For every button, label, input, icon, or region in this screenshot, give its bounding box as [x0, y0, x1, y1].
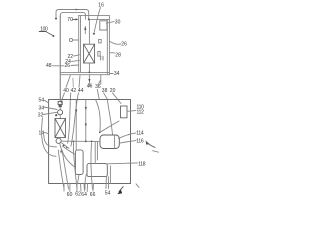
- bottom label 54b: [105, 191, 111, 197]
- compressor circle: [56, 138, 61, 143]
- svg-text:48: 48: [46, 63, 52, 69]
- right squiggle pointer: [148, 143, 156, 147]
- leader 24: [72, 60, 80, 61]
- leader 36 up: [99, 81, 101, 85]
- label 44: [78, 88, 84, 94]
- left label 32: [38, 112, 44, 118]
- leader arrow from 100 to pipe: [47, 32, 53, 35]
- wire manifold to tank: [73, 141, 75, 150]
- right label 110: [137, 105, 145, 111]
- wire: outer duct right vertical: [86, 10, 89, 20]
- leader 38 down: [104, 93, 108, 99]
- right label 118: [138, 161, 146, 167]
- leader to label 28: [110, 52, 115, 54]
- label 46: [87, 83, 93, 89]
- wire: inner duct right vertical: [83, 12, 86, 19]
- leader 44 into box: [71, 93, 79, 146]
- small down arrow near compressor: [60, 151, 62, 154]
- wire right of control box: [109, 166, 111, 184]
- housing right wall inner: [106, 19, 108, 74]
- junction dot terminating stub: [55, 18, 57, 20]
- svg-text:36: 36: [95, 84, 101, 90]
- wire capsule to control box: [94, 141, 96, 163]
- svg-text:46: 46: [87, 83, 93, 89]
- leader curve bottom to compressor left: [58, 150, 64, 189]
- left label 34b: [39, 105, 45, 111]
- svg-text:70: 70: [67, 17, 73, 23]
- svg-text:118: 118: [138, 161, 146, 167]
- label 26a: [65, 63, 71, 69]
- wire valve to evaporator: [59, 115, 61, 119]
- svg-text:112: 112: [137, 109, 145, 115]
- svg-text:38: 38: [102, 88, 108, 94]
- svg-text:34: 34: [39, 105, 45, 111]
- svg-text:34: 34: [114, 71, 120, 77]
- junction cluster blobs: [63, 144, 65, 146]
- svg-text:16: 16: [98, 3, 104, 9]
- long leader curve into box lower-left a: [44, 135, 57, 147]
- small rect component right: [121, 106, 128, 118]
- shelf line y=19.4: [89, 18, 110, 20]
- wire: right below floor: [100, 75, 102, 85]
- leader curve bottom to compressor: [62, 150, 69, 189]
- svg-text:64: 64: [81, 192, 87, 198]
- heat exchanger X-box top: [84, 44, 95, 63]
- bottom label 66: [90, 192, 96, 198]
- right label 114: [136, 130, 144, 136]
- junction dot on floor: [89, 72, 91, 74]
- wire compressor to tank curve b: [60, 144, 76, 168]
- label 20: [110, 88, 116, 94]
- housing right wall outer: [108, 16, 110, 75]
- wire from top edge down right-middle: [96, 100, 101, 132]
- leader to label 30: [106, 22, 114, 24]
- right label 116: [136, 138, 144, 144]
- leader 44 up: [79, 76, 80, 88]
- leader to right label 118: [107, 162, 137, 165]
- flow arrowhead on top duct line: [76, 9, 80, 11]
- label 26: [121, 42, 127, 48]
- leader 40 into box: [61, 93, 64, 103]
- leader from 16: [94, 8, 100, 33]
- leader 38 continues into box: [107, 99, 112, 135]
- label 16: [98, 3, 104, 9]
- label 22: [68, 54, 74, 60]
- left label 54: [39, 98, 45, 104]
- leader 22: [74, 55, 80, 56]
- svg-text:114: 114: [136, 130, 144, 136]
- label 42: [71, 88, 77, 94]
- wire vertical inside box a: [75, 100, 77, 150]
- big box: [49, 100, 131, 184]
- svg-text:26: 26: [121, 42, 127, 48]
- floor line upper: [60, 71, 109, 73]
- left label 14: [39, 130, 45, 136]
- corner tick bottom right: [136, 184, 139, 188]
- wire: outer duct top horizontal: [59, 9, 86, 11]
- label 36: [95, 84, 101, 90]
- leader 36 down: [97, 89, 99, 99]
- wire vertical inside box b: [85, 100, 87, 142]
- housing left wall outer: [78, 16, 80, 73]
- wire evaporator to compressor: [58, 137, 61, 140]
- label 28: [115, 53, 121, 59]
- small bracket component a: [99, 40, 102, 43]
- dark dot left of valve: [55, 114, 57, 116]
- junction dot and diagonal right-middle: [99, 131, 101, 133]
- wire tank to bottom edge: [78, 175, 80, 184]
- leader curve bottom to manifold: [91, 143, 93, 189]
- small bracket component b: [98, 52, 100, 57]
- leader to right label 114: [119, 141, 136, 144]
- svg-text:42: 42: [71, 88, 77, 94]
- long leader curve into box lower-left b: [42, 118, 56, 157]
- leader 26a: [71, 64, 79, 67]
- bottom small arrow mark: [119, 187, 123, 192]
- wire: center below floor with arrow: [88, 75, 90, 87]
- blower capsule: [100, 135, 119, 149]
- right label 112: [137, 109, 145, 115]
- leader 40 up: [66, 76, 70, 88]
- label 38: [102, 88, 108, 94]
- bottom label 60: [67, 192, 73, 198]
- housing top edge: [79, 15, 110, 17]
- leader 46 up: [72, 78, 74, 87]
- leader curve bottom left of tank: [73, 150, 77, 190]
- expansion valve rect: [58, 102, 62, 105]
- floor line lower: [60, 74, 109, 76]
- housing left wall inner: [80, 16, 82, 73]
- leader to right label 112: [118, 133, 136, 139]
- up flow arrow inside housing: [84, 26, 86, 30]
- svg-text:28: 28: [115, 53, 121, 59]
- wire from sensor: [73, 39, 79, 41]
- svg-text:26: 26: [65, 63, 71, 69]
- svg-text:30: 30: [115, 20, 121, 26]
- wire compressor to tank curve a: [63, 146, 76, 155]
- label 100 with underline: [40, 27, 48, 33]
- leader: [44, 107, 57, 110]
- wire: left pipe vertical: [59, 16, 61, 100]
- svg-text:62: 62: [75, 192, 81, 198]
- leader: [43, 112, 57, 114]
- label 70 flow arrow: [67, 17, 73, 23]
- leader 42 into box: [68, 93, 71, 143]
- wire: center line above X-box: [88, 19, 90, 44]
- wire box top to valve: [59, 100, 61, 102]
- bottom label 64: [81, 192, 87, 198]
- capsule inner line: [114, 135, 116, 148]
- label 40: [63, 88, 69, 94]
- leader 48 crossing pipe: [52, 65, 64, 67]
- leader 20 down: [112, 93, 121, 104]
- svg-text:54: 54: [105, 191, 111, 197]
- expansion valve circle: [58, 110, 63, 115]
- svg-text:54: 54: [39, 98, 45, 104]
- leader: [44, 100, 49, 103]
- junction dot: [88, 18, 90, 20]
- manifold wire: [61, 140, 100, 142]
- floor right mark: [109, 73, 113, 75]
- svg-text:60: 60: [67, 192, 73, 198]
- leader curve bottom to control box: [85, 171, 88, 189]
- wire: inner duct top horizontal: [63, 11, 83, 13]
- label 48 left of pipe: [46, 63, 52, 69]
- wire: outer duct stub with rounded corner: [56, 10, 59, 19]
- control box bottom right: [87, 164, 107, 177]
- label 24: [65, 59, 71, 65]
- label 34: [114, 71, 120, 77]
- leader to right label 110: [127, 110, 136, 113]
- leader to label 26: [110, 41, 121, 44]
- vent dashes below bracket: [100, 56, 102, 60]
- wire: center line below X-box: [88, 63, 90, 72]
- bottom label 62: [75, 192, 81, 198]
- svg-text:116: 116: [136, 138, 144, 144]
- evaporator X-box bottom: [55, 119, 66, 138]
- bottom leader ticks: [63, 184, 65, 191]
- valve stem: [59, 107, 61, 110]
- component rect 30: [100, 21, 107, 30]
- leader: [44, 132, 49, 133]
- accumulator tank: [75, 150, 83, 175]
- sensor circle: [69, 38, 72, 41]
- label 30: [115, 20, 121, 26]
- svg-text:66: 66: [90, 192, 96, 198]
